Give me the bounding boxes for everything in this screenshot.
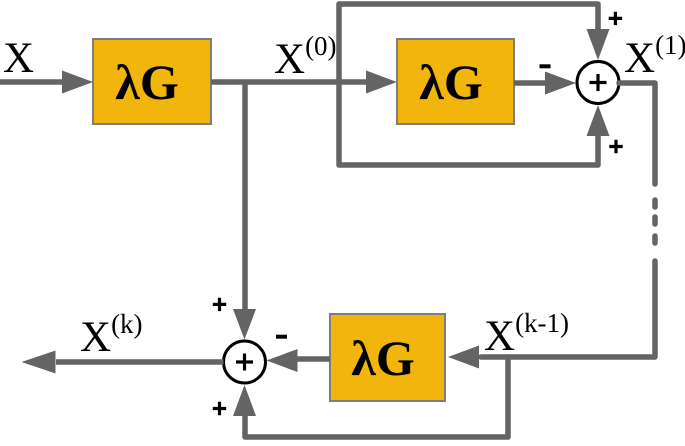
arrowhead into block G3 <box>448 346 479 369</box>
plus sign top of summer S2 <box>213 298 226 311</box>
wire down right side to X(k-1) row <box>481 261 655 357</box>
svg-text:λG: λG <box>115 54 178 110</box>
wire feedforward top loop <box>339 4 598 82</box>
block lambda-G G2 <box>397 39 514 124</box>
arrowhead into summer S1 <box>545 72 576 95</box>
plus sign top of summer S1 <box>609 12 622 25</box>
plus sign bottom of summer S1 <box>609 140 622 153</box>
svg-text:λG: λG <box>419 54 482 110</box>
wire G1 output to G2 <box>211 79 367 85</box>
arrowhead into block G2 <box>366 71 397 94</box>
arrowhead into block G1 <box>62 71 93 94</box>
wire S1 output down right side <box>619 83 655 184</box>
arrowhead bottom into summer S1 <box>587 105 610 136</box>
wire G2 output to summer S1 <box>514 80 546 86</box>
svg-text:X: X <box>3 35 34 82</box>
wire S2 output to the left <box>56 359 224 365</box>
arrowhead up into summer S2 <box>233 385 256 416</box>
arrowhead top into summer S1 <box>587 29 610 60</box>
plus sign bottom of summer S2 <box>213 402 226 415</box>
dotted iteration wire <box>652 200 658 207</box>
block lambda-G G3 <box>330 314 445 401</box>
wire input X <box>0 79 62 85</box>
arrowhead output X(k) <box>22 351 56 374</box>
arrowhead down into summer S2 from X(0) branch <box>233 309 256 340</box>
wire feedforward bottom loop <box>339 82 598 165</box>
block lambda-G G1 <box>93 39 211 124</box>
wire branch X(0) down to summer S2 <box>242 82 248 310</box>
svg-text:λG: λG <box>351 330 414 386</box>
wire G3 output to summer S2 <box>297 356 330 362</box>
minus sign at G2 output <box>540 64 551 68</box>
summer S2 <box>224 341 266 383</box>
minus sign at G3 output <box>276 335 287 339</box>
wire branch X(k-1) down and under to summer S2 <box>245 357 508 437</box>
arrowhead into summer S2 from right <box>267 349 298 372</box>
summer S1 <box>577 62 619 104</box>
